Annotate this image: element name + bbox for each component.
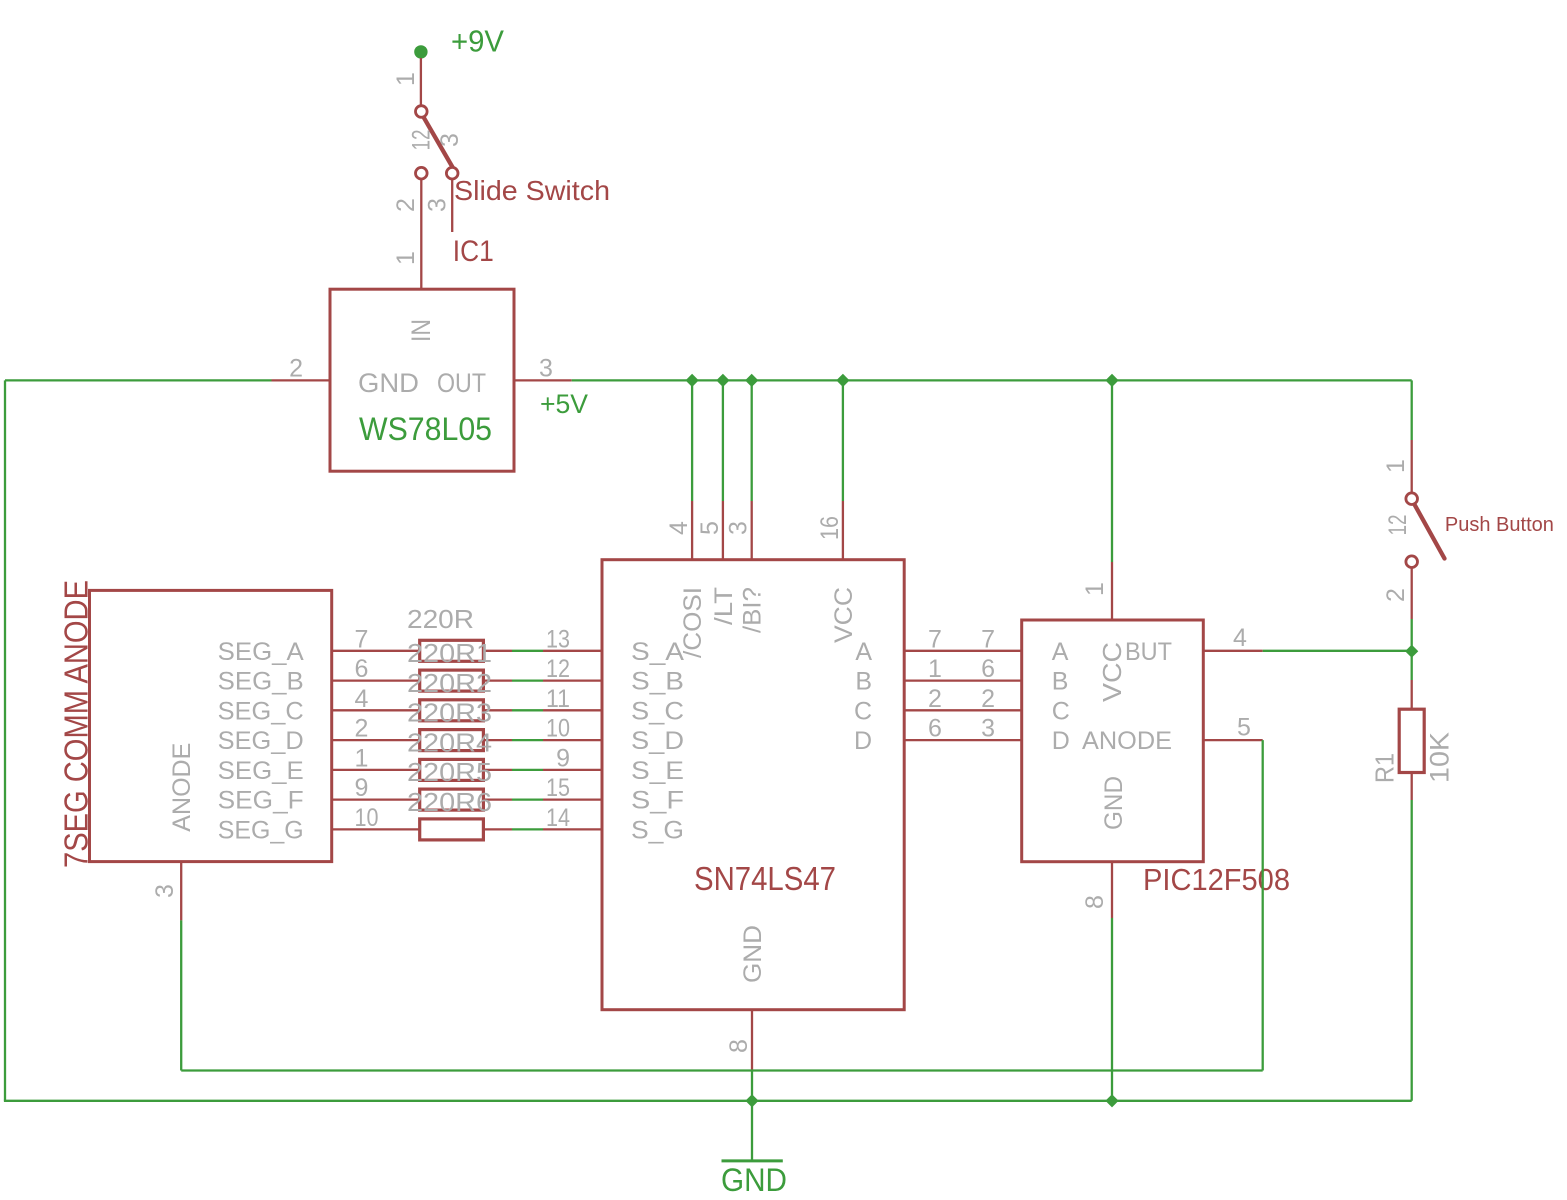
- resistor 220R4 body: [420, 730, 484, 751]
- svg-text:S_B: S_B: [631, 668, 684, 696]
- svg-text:SEG_B: SEG_B: [218, 668, 304, 696]
- wire 7SEG anode vertical: [180, 920, 182, 1070]
- junction GND rail at PIC pin 8: [1105, 1094, 1118, 1107]
- pin 8 stub (PIC bottom): [1111, 862, 1113, 918]
- svg-text:6: 6: [355, 655, 369, 683]
- push button contact pin 2: [1406, 556, 1418, 568]
- svg-text:GND: GND: [358, 368, 419, 398]
- junction on +5V rail at pin 16 drop: [836, 374, 849, 387]
- resistor 220R2 body: [420, 670, 484, 691]
- svg-text:3: 3: [151, 884, 179, 898]
- pin 5 stub (PIC ANODE): [1203, 739, 1262, 741]
- svg-text:12: 12: [546, 655, 570, 683]
- svg-text:2: 2: [392, 198, 420, 212]
- svg-text:A: A: [855, 638, 872, 666]
- resistor 220R4 right lead: [483, 739, 512, 741]
- wire slide switch pin 3 stub: [451, 179, 453, 232]
- wire +5V to SN74LS47 pin 16: [842, 380, 844, 501]
- svg-text:3: 3: [725, 521, 753, 535]
- resistor 220R1 body: [420, 640, 484, 661]
- wire GND net left vertical: [4, 380, 6, 1100]
- svg-text:SEG_A: SEG_A: [218, 638, 304, 666]
- svg-text:GND: GND: [721, 1162, 787, 1198]
- svg-text:7SEG COMM ANODE: 7SEG COMM ANODE: [58, 580, 95, 868]
- svg-text:2: 2: [981, 685, 995, 713]
- svg-text:C: C: [854, 697, 872, 725]
- svg-text:S_C: S_C: [631, 697, 684, 725]
- pin stub SN74LS47 pin 15: [543, 798, 602, 800]
- slide switch contact pin 3: [446, 167, 458, 179]
- svg-text:9: 9: [355, 774, 369, 802]
- wire +5V to SN74LS47 pin 5: [722, 380, 724, 501]
- wire +5V to PIC pin 1: [1111, 380, 1113, 562]
- svg-text:14: 14: [546, 804, 570, 832]
- resistor 220R5 body: [420, 759, 484, 780]
- pin 4 stub (PIC BUT): [1203, 650, 1262, 652]
- pin 2 stub of IC1: [272, 379, 331, 381]
- ground symbol bar: [722, 1159, 783, 1162]
- svg-text:Push Button: Push Button: [1445, 513, 1554, 536]
- pin stub R1 top: [1411, 680, 1413, 709]
- junction on +5V rail at PIC pin 1 drop: [1105, 374, 1118, 387]
- pin 1 stub (PIC top): [1111, 562, 1113, 620]
- wire SN74LS47 pin 2 to PIC pin 2: [904, 709, 1022, 711]
- svg-text:220R3: 220R3: [407, 698, 492, 728]
- svg-text:2: 2: [355, 715, 369, 743]
- wire +5V to SN74LS47 pin 3: [751, 380, 753, 501]
- svg-text:SEG_C: SEG_C: [218, 697, 304, 725]
- svg-text:SEG_F: SEG_F: [218, 787, 304, 815]
- junction on +5V rail at pin 5 drop: [716, 374, 729, 387]
- svg-text:220R2: 220R2: [407, 668, 492, 698]
- svg-text:1: 1: [1081, 582, 1109, 596]
- svg-text:S_D: S_D: [631, 727, 684, 755]
- svg-text:220R: 220R: [407, 604, 474, 634]
- svg-text:B: B: [855, 668, 872, 696]
- resistor 220R6 body: [420, 789, 484, 810]
- svg-text:7: 7: [928, 625, 942, 653]
- svg-text:1: 1: [392, 251, 420, 265]
- pin stub SN74LS47 pin 10: [543, 739, 602, 741]
- svg-text:12: 12: [408, 130, 436, 151]
- svg-text:3: 3: [436, 133, 464, 147]
- svg-text:3: 3: [539, 354, 553, 382]
- wire +5V to SN74LS47 pin 4: [691, 380, 693, 501]
- svg-text:B: B: [1052, 668, 1069, 696]
- svg-text:6: 6: [981, 655, 995, 683]
- svg-text:IC1: IC1: [453, 235, 494, 268]
- pin stub SN74LS47 pin 14: [543, 828, 602, 830]
- svg-text:VCC: VCC: [1097, 642, 1127, 702]
- wire junction to R1: [1411, 651, 1413, 680]
- pin 1 stub (push button): [1411, 440, 1413, 493]
- push button contact pin 1: [1406, 493, 1418, 505]
- pin 2 stub (push button): [1411, 567, 1413, 619]
- svg-text:S_A: S_A: [631, 638, 684, 666]
- svg-text:220R6: 220R6: [407, 787, 492, 817]
- svg-text:S_F: S_F: [631, 787, 684, 815]
- wire push button to junction: [1411, 619, 1413, 651]
- pin 16 stub (SN74LS47 top): [842, 501, 844, 560]
- resistor 220R6 right lead: [483, 798, 512, 800]
- pin 6 stub of 7SEG (SEG_B) with resistor lead: [332, 679, 420, 681]
- voltage regulator IC1 WS78L05 body: [330, 289, 514, 471]
- wire SN74LS47 pin 7 to PIC pin 7: [904, 650, 1022, 652]
- wire net 220R3 to SN74LS47: [512, 709, 543, 711]
- svg-text:4: 4: [1233, 624, 1247, 652]
- wire PIC pin 4 to push button node: [1263, 650, 1412, 652]
- svg-text:220R4: 220R4: [407, 727, 492, 757]
- svg-text:BUT: BUT: [1125, 638, 1172, 666]
- pin 8 stub (SN74LS47 bottom): [751, 1010, 753, 1070]
- pin stub R1 bottom: [1411, 773, 1413, 801]
- svg-text:4: 4: [665, 521, 693, 535]
- wire SN74LS47 pin 6 to PIC pin 3: [904, 739, 1022, 741]
- svg-text:GND: GND: [739, 925, 767, 983]
- svg-text:2: 2: [928, 685, 942, 713]
- svg-text:SN74LS47: SN74LS47: [694, 860, 836, 897]
- junction push button / PIC BUT / R1: [1405, 645, 1418, 658]
- resistor 220R3 body: [420, 700, 484, 721]
- junction on +5V rail at pin 4 drop: [686, 374, 699, 387]
- wire R1 to GND rail: [1411, 800, 1413, 1101]
- svg-text:S_G: S_G: [631, 816, 684, 844]
- svg-text:D: D: [854, 727, 872, 755]
- svg-text:ANODE: ANODE: [168, 743, 196, 832]
- svg-text:8: 8: [1081, 895, 1109, 909]
- svg-text:1: 1: [355, 744, 369, 772]
- wire net 220R5 to SN74LS47: [512, 769, 543, 771]
- slide switch contact pin 1: [416, 106, 428, 118]
- svg-text:10: 10: [355, 804, 379, 832]
- resistor 220R1 right lead: [483, 650, 512, 652]
- svg-text:6: 6: [928, 715, 942, 743]
- pin 7 stub of 7SEG (SEG_A) with resistor lead: [332, 650, 420, 652]
- svg-text:11: 11: [546, 685, 570, 713]
- svg-text:/BI?: /BI?: [739, 587, 767, 633]
- svg-text:IN: IN: [406, 319, 436, 342]
- pin 1 stub of 7SEG (SEG_E) with resistor lead: [332, 769, 420, 771]
- svg-text:2: 2: [1382, 588, 1410, 602]
- wire PIC pin 5 down to anode net: [1262, 740, 1264, 1070]
- pin stub SN74LS47 pin 9: [543, 769, 602, 771]
- svg-text:220R1: 220R1: [407, 638, 492, 668]
- pin 10 stub of 7SEG (SEG_G) with resistor lead: [332, 828, 420, 830]
- svg-text:C: C: [1052, 697, 1070, 725]
- svg-text:1: 1: [392, 72, 420, 86]
- svg-text:1: 1: [1382, 459, 1410, 473]
- svg-text:1: 1: [928, 655, 942, 683]
- slide switch lever: [424, 118, 454, 169]
- svg-text:GND: GND: [1100, 776, 1128, 830]
- wire PIC pin 8 to GND rail: [1111, 918, 1113, 1101]
- svg-text:5: 5: [1237, 714, 1251, 742]
- junction on +5V rail at pin 3 drop: [745, 374, 758, 387]
- pin 4 stub (SN74LS47 top): [691, 501, 693, 560]
- svg-text:13: 13: [546, 625, 570, 653]
- IC PIC12F508 body: [1022, 620, 1204, 862]
- pin 4 stub of 7SEG (SEG_C) with resistor lead: [332, 709, 420, 711]
- svg-text:D: D: [1052, 727, 1070, 755]
- junction GND rail at SN74LS47 pin 8: [745, 1094, 758, 1107]
- wire net 220R2 to SN74LS47: [512, 679, 543, 681]
- svg-text:SEG_D: SEG_D: [218, 727, 304, 755]
- resistor 220R7 body: [420, 819, 484, 840]
- wire +9V to slide switch pin 1: [420, 58, 422, 106]
- svg-text:+5V: +5V: [540, 389, 588, 419]
- pin 9 stub of 7SEG (SEG_F) with resistor lead: [332, 798, 420, 800]
- pin 3 stub (SN74LS47 top): [751, 501, 753, 560]
- svg-text:10: 10: [546, 715, 570, 743]
- svg-text:ANODE: ANODE: [1082, 727, 1172, 755]
- svg-text:VCC: VCC: [830, 587, 858, 643]
- svg-text:+9V: +9V: [451, 24, 504, 59]
- svg-text:/COSI: /COSI: [679, 587, 707, 658]
- wire +5V rail down to push button: [1411, 380, 1413, 440]
- svg-text:PIC12F508: PIC12F508: [1143, 862, 1290, 897]
- pin 3 stub of 7SEG ANODE: [180, 862, 182, 921]
- wire net 220R1 to SN74LS47: [512, 650, 543, 652]
- svg-text:R1: R1: [1370, 753, 1400, 783]
- svg-text:7: 7: [355, 625, 369, 653]
- pin stub SN74LS47 pin 11: [543, 709, 602, 711]
- svg-text:15: 15: [546, 774, 570, 802]
- IC SN74LS47 body: [602, 560, 904, 1010]
- wire net 220R6 to SN74LS47: [512, 798, 543, 800]
- wire +5V rail: [572, 379, 1412, 381]
- 7-segment display 7SEG COMM ANODE body: [90, 590, 332, 861]
- svg-text:S_E: S_E: [631, 757, 684, 785]
- pin stub SN74LS47 pin 12: [543, 679, 602, 681]
- wire slide switch pin 2 to IC1 IN: [420, 179, 422, 289]
- svg-text:9: 9: [556, 744, 570, 772]
- power symbol +9V node: [414, 45, 427, 58]
- push button lever: [1415, 505, 1445, 559]
- wire anode net horizontal: [181, 1069, 1263, 1071]
- svg-text:/LT: /LT: [710, 587, 738, 625]
- pin 3 stub of IC1: [514, 379, 572, 381]
- ground symbol stem: [751, 1101, 753, 1161]
- pin stub SN74LS47 pin 13: [543, 650, 602, 652]
- pin 5 stub (SN74LS47 top): [722, 501, 724, 560]
- svg-text:SEG_G: SEG_G: [218, 816, 304, 844]
- svg-text:8: 8: [725, 1039, 753, 1053]
- svg-text:A: A: [1052, 638, 1069, 666]
- svg-text:5: 5: [696, 521, 724, 535]
- pin 2 stub of 7SEG (SEG_D) with resistor lead: [332, 739, 420, 741]
- svg-text:OUT: OUT: [437, 368, 486, 398]
- wire net 220R7 to SN74LS47: [512, 828, 543, 830]
- svg-text:4: 4: [355, 685, 369, 713]
- wire SN74LS47 pin 8 to GND rail: [751, 1070, 753, 1101]
- resistor 220R5 right lead: [483, 769, 512, 771]
- slide switch contact pin 2: [416, 167, 428, 179]
- resistor 220R7 right lead: [483, 828, 512, 830]
- svg-text:2: 2: [289, 354, 303, 382]
- svg-text:Slide Switch: Slide Switch: [454, 175, 610, 206]
- svg-text:220R5: 220R5: [407, 757, 492, 787]
- wire GND net bottom rail: [4, 1100, 1412, 1102]
- resistor R1 body: [1399, 709, 1424, 772]
- svg-text:SEG_E: SEG_E: [218, 757, 304, 785]
- wire net 220R4 to SN74LS47: [512, 739, 543, 741]
- svg-text:16: 16: [816, 516, 844, 540]
- svg-text:7: 7: [981, 625, 995, 653]
- resistor 220R2 right lead: [483, 679, 512, 681]
- svg-text:10K: 10K: [1424, 732, 1454, 783]
- resistor 220R3 right lead: [483, 709, 512, 711]
- svg-text:WS78L05: WS78L05: [359, 411, 492, 447]
- svg-text:3: 3: [424, 198, 452, 212]
- wire SN74LS47 pin 1 to PIC pin 6: [904, 679, 1022, 681]
- svg-text:3: 3: [981, 715, 995, 743]
- wire GND net from IC1 pin2 to left edge: [5, 379, 272, 381]
- svg-text:12: 12: [1384, 515, 1412, 536]
